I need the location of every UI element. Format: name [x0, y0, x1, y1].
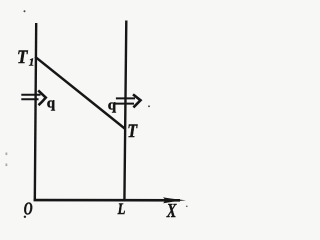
scan noise specks — [24, 10, 26, 12]
node L label — [117, 201, 126, 219]
figure: temperature profile between two plates — [0, 0, 215, 220]
node: X axis arrowhead — [163, 197, 186, 203]
svg-text:X: X — [166, 199, 177, 220]
wire: right vertical line (plate at x=L) — [124, 21, 126, 202]
right q label — [108, 98, 117, 114]
svg-text:T: T — [127, 120, 138, 142]
svg-text:T: T — [17, 46, 28, 67]
svg-text:1: 1 — [29, 56, 35, 68]
left q label — [47, 95, 56, 111]
node T1 label — [17, 46, 28, 67]
node O (origin) label — [24, 199, 33, 219]
svg-text:q: q — [47, 95, 56, 111]
wire: diagonal temperature profile T1 -> T — [35, 57, 125, 129]
svg-text:q: q — [108, 98, 117, 114]
svg-text:L: L — [117, 201, 126, 219]
node X (axis) label — [166, 199, 177, 222]
right heat-flux double arrow — [114, 94, 141, 107]
wire: left vertical axis (plate at x=0) — [35, 23, 36, 201]
node T label — [127, 120, 138, 142]
wire: horizontal X axis — [34, 199, 180, 202]
left heat-flux double arrow — [21, 90, 46, 105]
